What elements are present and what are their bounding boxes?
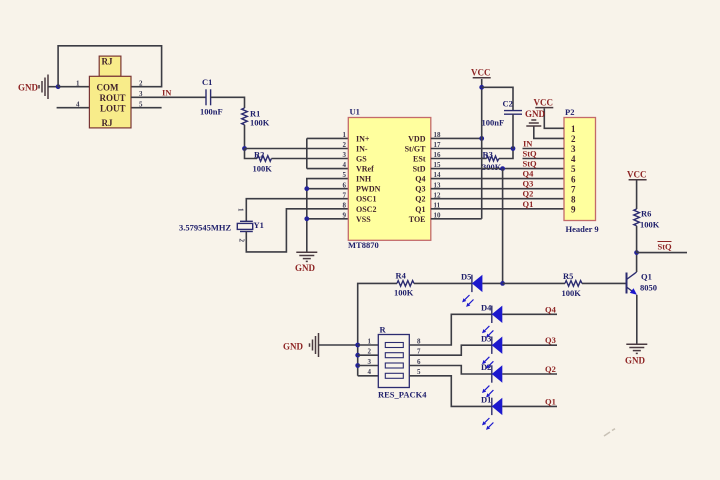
svg-text:IN: IN <box>162 88 172 98</box>
node bus pin3 junction <box>355 363 360 368</box>
resistor R5 <box>562 271 583 298</box>
wire U1 pin 10 TOE to VCC line <box>431 218 482 220</box>
transistor Q1 8050 <box>627 272 658 295</box>
wire D5 to StD node <box>482 282 502 284</box>
svg-text:Y1: Y1 <box>254 220 264 230</box>
wire junction down to R2 <box>245 149 258 159</box>
wire left bus to R4 <box>358 283 397 375</box>
net label StQ with overline <box>658 242 673 252</box>
wire U1 pin 9 stub <box>307 218 349 220</box>
LED D2 <box>481 362 502 397</box>
svg-text:4: 4 <box>76 100 80 108</box>
wire C2 bottom to St/GT node <box>512 114 514 148</box>
svg-text:2: 2 <box>343 141 347 149</box>
svg-text:GS: GS <box>356 155 367 164</box>
svg-text:C2: C2 <box>503 99 513 109</box>
svg-text:OSC1: OSC1 <box>356 195 376 204</box>
svg-text:6: 6 <box>343 181 347 189</box>
svg-text:Q3: Q3 <box>545 335 556 345</box>
pin numbers RES_PACK right <box>417 337 421 376</box>
svg-text:300K: 300K <box>482 162 502 172</box>
LED D3 <box>481 333 502 368</box>
wire RES_PACK pin 2 stub <box>358 354 379 356</box>
svg-text:Q1: Q1 <box>641 272 652 282</box>
svg-text:Q1: Q1 <box>545 396 556 406</box>
svg-text:Q2: Q2 <box>545 364 556 374</box>
wire junction to input bus (U1 pin 2 feed) <box>245 148 307 150</box>
svg-text:D3: D3 <box>481 333 491 343</box>
svg-text:StQ: StQ <box>658 242 673 252</box>
node input junction dot <box>56 84 61 89</box>
svg-text:RES_PACK4: RES_PACK4 <box>378 390 427 400</box>
svg-text:R2: R2 <box>254 150 264 160</box>
svg-text:COM: COM <box>97 83 120 93</box>
svg-text:3: 3 <box>571 144 576 154</box>
LED D5 <box>461 272 482 307</box>
svg-text:3: 3 <box>343 151 347 159</box>
wire P2 pin 3 stub <box>523 148 565 150</box>
resistor R3 <box>482 150 502 173</box>
wire R2 to input bus <box>271 158 306 160</box>
pin numbers U1 left 1-9 <box>343 131 347 219</box>
wire U1 pin 15 StD to P2 pin 5 <box>431 168 564 170</box>
svg-text:4: 4 <box>571 154 576 164</box>
wire D1 anode to Q1 stub <box>502 405 557 407</box>
wire U1 pin 14 Q4 to P2 pin 6 <box>431 178 564 180</box>
svg-text:U1: U1 <box>350 107 360 117</box>
wire RJ pin 4 stub <box>57 107 90 109</box>
svg-text:2: 2 <box>139 79 143 87</box>
op-amp U1 MT8870 chip <box>348 107 431 251</box>
wire U1 pin 16 to R3 <box>431 158 487 160</box>
node C1/R1/R2 junction dot <box>242 146 247 151</box>
svg-text:4: 4 <box>368 368 372 376</box>
wire R3 to St/GT node <box>499 149 513 159</box>
svg-text:100K: 100K <box>253 164 273 174</box>
svg-text:100K: 100K <box>394 288 414 298</box>
node bus pin1 junction <box>355 343 360 348</box>
svg-text:100K: 100K <box>640 220 660 230</box>
resistor R6 <box>634 209 660 230</box>
wire RES_PACK pin 6 to D2 <box>409 366 492 375</box>
svg-text:PWDN: PWDN <box>356 185 381 194</box>
wire RES_PACK pin 8 to D4 <box>409 314 492 345</box>
wire StQ stub right <box>637 252 687 254</box>
svg-text:VCC: VCC <box>627 170 647 180</box>
svg-text:GND: GND <box>525 109 546 119</box>
connector RJ phone jack <box>89 56 131 128</box>
svg-text:6: 6 <box>417 358 421 366</box>
svg-text:1: 1 <box>76 79 80 87</box>
resistor pack RES_PACK4 <box>378 325 427 400</box>
svg-text:R: R <box>380 325 387 335</box>
ground GND3 at P2 <box>525 109 546 126</box>
svg-text:2: 2 <box>368 348 372 356</box>
svg-text:Q2: Q2 <box>523 189 534 199</box>
svg-text:100K: 100K <box>250 118 270 128</box>
svg-text:IN+: IN+ <box>356 134 370 143</box>
wire P2 pin 1 to VCC2 <box>544 109 564 129</box>
svg-text:INH: INH <box>356 175 372 184</box>
wire RJ pin 5 stub <box>131 107 162 109</box>
svg-text:7: 7 <box>417 348 421 356</box>
svg-text:3.579545MHZ: 3.579545MHZ <box>179 223 232 233</box>
svg-text:Q2: Q2 <box>415 195 425 204</box>
wire RES_PACK pin 5 to D1 <box>409 376 492 407</box>
svg-text:Q4: Q4 <box>523 169 535 179</box>
wire D3 anode to Q3 stub <box>502 344 557 346</box>
svg-text:VSS: VSS <box>356 215 371 224</box>
svg-text:ROUT: ROUT <box>100 93 126 103</box>
pin numbers RES_PACK left <box>368 337 372 376</box>
svg-text:RJ: RJ <box>102 118 113 128</box>
ground GND2 below U1 <box>295 252 317 272</box>
wire RES_PACK pin 1 stub <box>358 344 379 346</box>
svg-text:5: 5 <box>343 171 347 179</box>
node bus pin2 junction <box>355 353 360 358</box>
ground GND5 at resistor pack <box>283 333 319 357</box>
LED D1 <box>481 395 502 430</box>
wire U1 pin 17 to C2 node <box>431 148 513 150</box>
svg-text:9: 9 <box>343 211 347 219</box>
svg-text:P2: P2 <box>565 107 574 117</box>
svg-text:R4: R4 <box>396 271 407 281</box>
svg-text:RJ: RJ <box>102 57 113 67</box>
resistor R4 <box>394 271 414 298</box>
svg-text:R3: R3 <box>483 150 493 160</box>
wire P2 pin 4 stub <box>523 158 565 160</box>
resistor R2 <box>253 150 273 174</box>
svg-text:7: 7 <box>571 184 576 194</box>
svg-text:1: 1 <box>571 124 576 134</box>
svg-text:Q4: Q4 <box>545 304 557 314</box>
wire U1 pin 6 stub <box>307 188 349 190</box>
power VCC2 symbol at P2 <box>534 98 554 108</box>
wire crystal bottom to U1 pin 8 <box>246 209 348 252</box>
node pin 9 ground junction <box>304 216 309 221</box>
svg-text:MT8870: MT8870 <box>348 240 379 250</box>
wire D4 anode to Q4 stub <box>502 313 557 315</box>
svg-text:5: 5 <box>139 100 143 108</box>
svg-text:St/GT: St/GT <box>405 145 427 154</box>
svg-text:100K: 100K <box>562 288 582 298</box>
svg-text:8: 8 <box>571 194 576 204</box>
wire U1 pin 1 stub <box>307 137 349 139</box>
resistor R1 <box>242 108 270 128</box>
power VCC top symbol <box>471 68 491 78</box>
svg-text:TOE: TOE <box>409 215 426 224</box>
svg-text:VDD: VDD <box>408 134 426 143</box>
wire R1 bottom to junction <box>244 125 246 149</box>
svg-text:R5: R5 <box>563 271 573 281</box>
svg-text:VCC: VCC <box>534 98 554 108</box>
wire StD vertical to LED circuit <box>502 169 504 284</box>
wire R5 to Q1 base <box>582 282 627 284</box>
node collector R6 StQ junction <box>634 250 639 255</box>
capacitor C1 <box>200 77 223 117</box>
node St/GT C2 R3 junction <box>511 146 516 151</box>
node D5 R5 StD junction <box>500 281 505 286</box>
wire U1 pin 4 stub <box>307 168 349 170</box>
svg-text:5: 5 <box>571 164 576 174</box>
wire node to R5 <box>503 282 565 284</box>
wire Q1 emitter down <box>636 295 638 345</box>
svg-text:IN-: IN- <box>356 145 368 154</box>
svg-text:Q3: Q3 <box>523 179 534 189</box>
svg-text:2: 2 <box>238 239 246 243</box>
wire Q1 collector up to R6 node <box>636 253 638 272</box>
wire VCC3 to R6 <box>636 180 638 209</box>
node pin 6 ground junction <box>304 186 309 191</box>
wire GND1 to input node <box>48 86 58 88</box>
wire C1 to R1 top <box>211 97 245 108</box>
svg-text:GND: GND <box>283 342 304 352</box>
svg-text:Q4: Q4 <box>415 175 425 184</box>
wire U1 pin 3 stub <box>307 158 349 160</box>
svg-text:GND: GND <box>18 83 39 93</box>
svg-text:8050: 8050 <box>640 283 657 293</box>
wire RES_PACK pin 4 stub <box>358 375 379 377</box>
svg-text:7: 7 <box>343 191 347 199</box>
node VCC branch dot <box>479 85 484 90</box>
node StD junction <box>500 166 505 171</box>
wire R4 to D5 <box>414 282 472 284</box>
svg-text:Q1: Q1 <box>523 199 534 209</box>
svg-text:6: 6 <box>571 174 576 184</box>
svg-text:GND: GND <box>625 356 646 366</box>
connector P2 Header 9 <box>564 107 599 234</box>
svg-text:LOUT: LOUT <box>100 104 126 114</box>
svg-text:D4: D4 <box>481 303 492 313</box>
svg-text:GND: GND <box>295 263 316 273</box>
wire R6 to collector node <box>636 226 638 253</box>
wire RES_PACK pin 7 to D3 <box>409 345 492 355</box>
svg-text:8: 8 <box>417 337 421 345</box>
svg-text:100nF: 100nF <box>482 118 505 128</box>
node pin 18 VCC junction <box>479 136 484 141</box>
svg-text:VRef: VRef <box>356 165 374 174</box>
svg-text:Q1: Q1 <box>415 205 425 214</box>
wire P2 pin 2 to GND3 <box>534 126 564 138</box>
wire GND5 to left bus <box>319 344 358 346</box>
svg-text:1: 1 <box>343 131 347 139</box>
svg-text:C1: C1 <box>202 77 212 87</box>
svg-text:ESt: ESt <box>413 155 426 164</box>
svg-text:IN: IN <box>523 139 533 149</box>
artifact faint mark bottom right <box>604 429 615 436</box>
wire U1 pin 5 to ground bus <box>307 179 349 253</box>
svg-text:StD: StD <box>413 165 426 174</box>
pin numbers U1 right 18-10 <box>434 131 442 219</box>
svg-text:Q3: Q3 <box>415 185 425 194</box>
svg-text:2: 2 <box>571 134 576 144</box>
wire input bus vertical pins 1-4 <box>306 138 308 168</box>
LED D4 <box>481 303 502 338</box>
wire VCC vertical line <box>481 79 483 219</box>
wire U1 pin 11 Q1 to P2 pin 9 <box>431 208 564 210</box>
svg-text:5: 5 <box>417 368 421 376</box>
svg-text:3: 3 <box>368 358 372 366</box>
svg-text:OSC2: OSC2 <box>356 205 376 214</box>
wire U1 pin 18 to VCC line <box>431 137 482 139</box>
capacitor C2 <box>482 99 523 128</box>
svg-text:4: 4 <box>343 161 347 169</box>
wire U1 pin 2 stub <box>307 148 349 150</box>
wire RES_PACK pin 3 stub <box>358 365 379 367</box>
svg-text:9: 9 <box>571 204 576 214</box>
wire U1 pin 12 Q2 to P2 pin 8 <box>431 198 564 200</box>
wire D2 anode to Q2 stub <box>502 373 557 375</box>
wire U1 pin 13 Q3 to P2 pin 7 <box>431 188 564 190</box>
svg-text:VCC: VCC <box>471 68 491 78</box>
wire VCC branch to C2 top <box>482 87 513 110</box>
ground GND1 left input ground <box>18 75 48 100</box>
svg-text:D2: D2 <box>481 362 491 372</box>
svg-text:8: 8 <box>343 201 347 209</box>
wire loop from node over RJ to pin 2 <box>58 46 162 87</box>
svg-text:StQ: StQ <box>523 159 538 169</box>
svg-text:D5: D5 <box>461 272 471 282</box>
wire node to RJ pin 1 <box>58 86 89 88</box>
wire U1 pin 7 to crystal <box>246 199 348 222</box>
crystal Y1 <box>179 208 264 243</box>
power VCC3 above R6 <box>627 170 647 180</box>
svg-text:1: 1 <box>368 337 372 345</box>
wire RJ pin 3 to C1 <box>131 96 206 98</box>
svg-text:D1: D1 <box>481 395 491 405</box>
svg-text:Header 9: Header 9 <box>566 224 599 234</box>
svg-text:100nF: 100nF <box>200 107 223 117</box>
svg-text:1: 1 <box>237 208 245 212</box>
svg-text:StQ: StQ <box>523 149 538 159</box>
ground GND4 under Q1 <box>625 344 647 365</box>
svg-text:R6: R6 <box>641 209 651 219</box>
